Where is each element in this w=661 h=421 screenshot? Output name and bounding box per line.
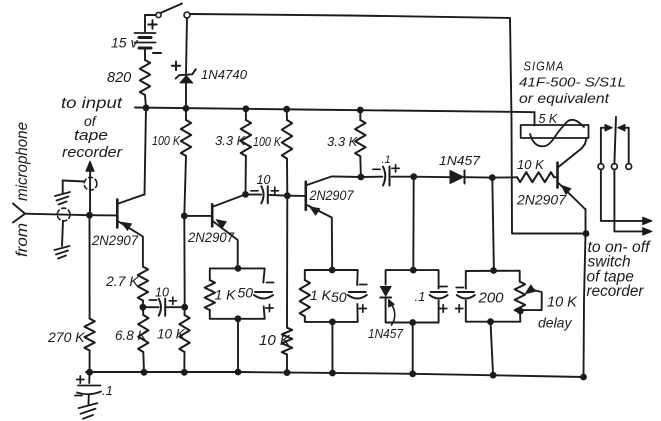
svg-text:10 K: 10 K — [517, 157, 545, 172]
svg-text:10 K: 10 K — [547, 295, 578, 311]
svg-text:.1: .1 — [382, 154, 391, 166]
svg-text:1N4740: 1N4740 — [201, 67, 248, 82]
svg-text:recorder: recorder — [587, 283, 645, 300]
svg-text:or equivalent: or equivalent — [519, 90, 610, 106]
svg-text:3.3 K: 3.3 K — [215, 133, 247, 148]
svg-text:1 K: 1 K — [215, 287, 237, 303]
svg-text:2N2907: 2N2907 — [516, 192, 567, 208]
svg-text:SIGMA: SIGMA — [524, 60, 565, 74]
svg-text:.1: .1 — [102, 383, 113, 398]
svg-text:2.7 K: 2.7 K — [105, 273, 139, 289]
svg-text:3.3 K: 3.3 K — [327, 134, 359, 149]
svg-text:microphone: microphone — [14, 122, 31, 201]
svg-text:10 K: 10 K — [157, 327, 186, 342]
svg-text:1N457: 1N457 — [439, 154, 481, 168]
svg-text:10: 10 — [257, 173, 271, 187]
svg-text:100 K: 100 K — [253, 135, 282, 149]
svg-text:1N457: 1N457 — [368, 326, 404, 341]
svg-text:820: 820 — [107, 70, 131, 86]
svg-text:from: from — [14, 223, 31, 257]
svg-text:6.8 K: 6.8 K — [115, 328, 148, 343]
svg-text:recorder: recorder — [62, 144, 123, 161]
svg-text:1 K: 1 K — [310, 287, 332, 303]
svg-text:delay: delay — [538, 315, 572, 331]
svg-text:15 v: 15 v — [111, 35, 138, 51]
svg-text:.1: .1 — [415, 289, 426, 304]
svg-text:100 K: 100 K — [152, 134, 181, 148]
svg-text:2N2907: 2N2907 — [309, 188, 354, 203]
svg-text:50: 50 — [238, 285, 254, 301]
svg-text:10 K: 10 K — [259, 332, 291, 349]
svg-text:5 K: 5 K — [539, 112, 558, 126]
svg-text:10: 10 — [155, 286, 169, 300]
svg-text:tape: tape — [74, 127, 108, 144]
svg-text:270 K: 270 K — [47, 329, 85, 345]
svg-text:50: 50 — [331, 289, 347, 305]
svg-text:2N2907: 2N2907 — [91, 232, 139, 248]
svg-text:200: 200 — [478, 290, 505, 307]
svg-text:2N2907: 2N2907 — [187, 229, 235, 245]
svg-text:41F-500- S/S1L: 41F-500- S/S1L — [519, 75, 626, 90]
svg-text:to input: to input — [61, 95, 123, 112]
